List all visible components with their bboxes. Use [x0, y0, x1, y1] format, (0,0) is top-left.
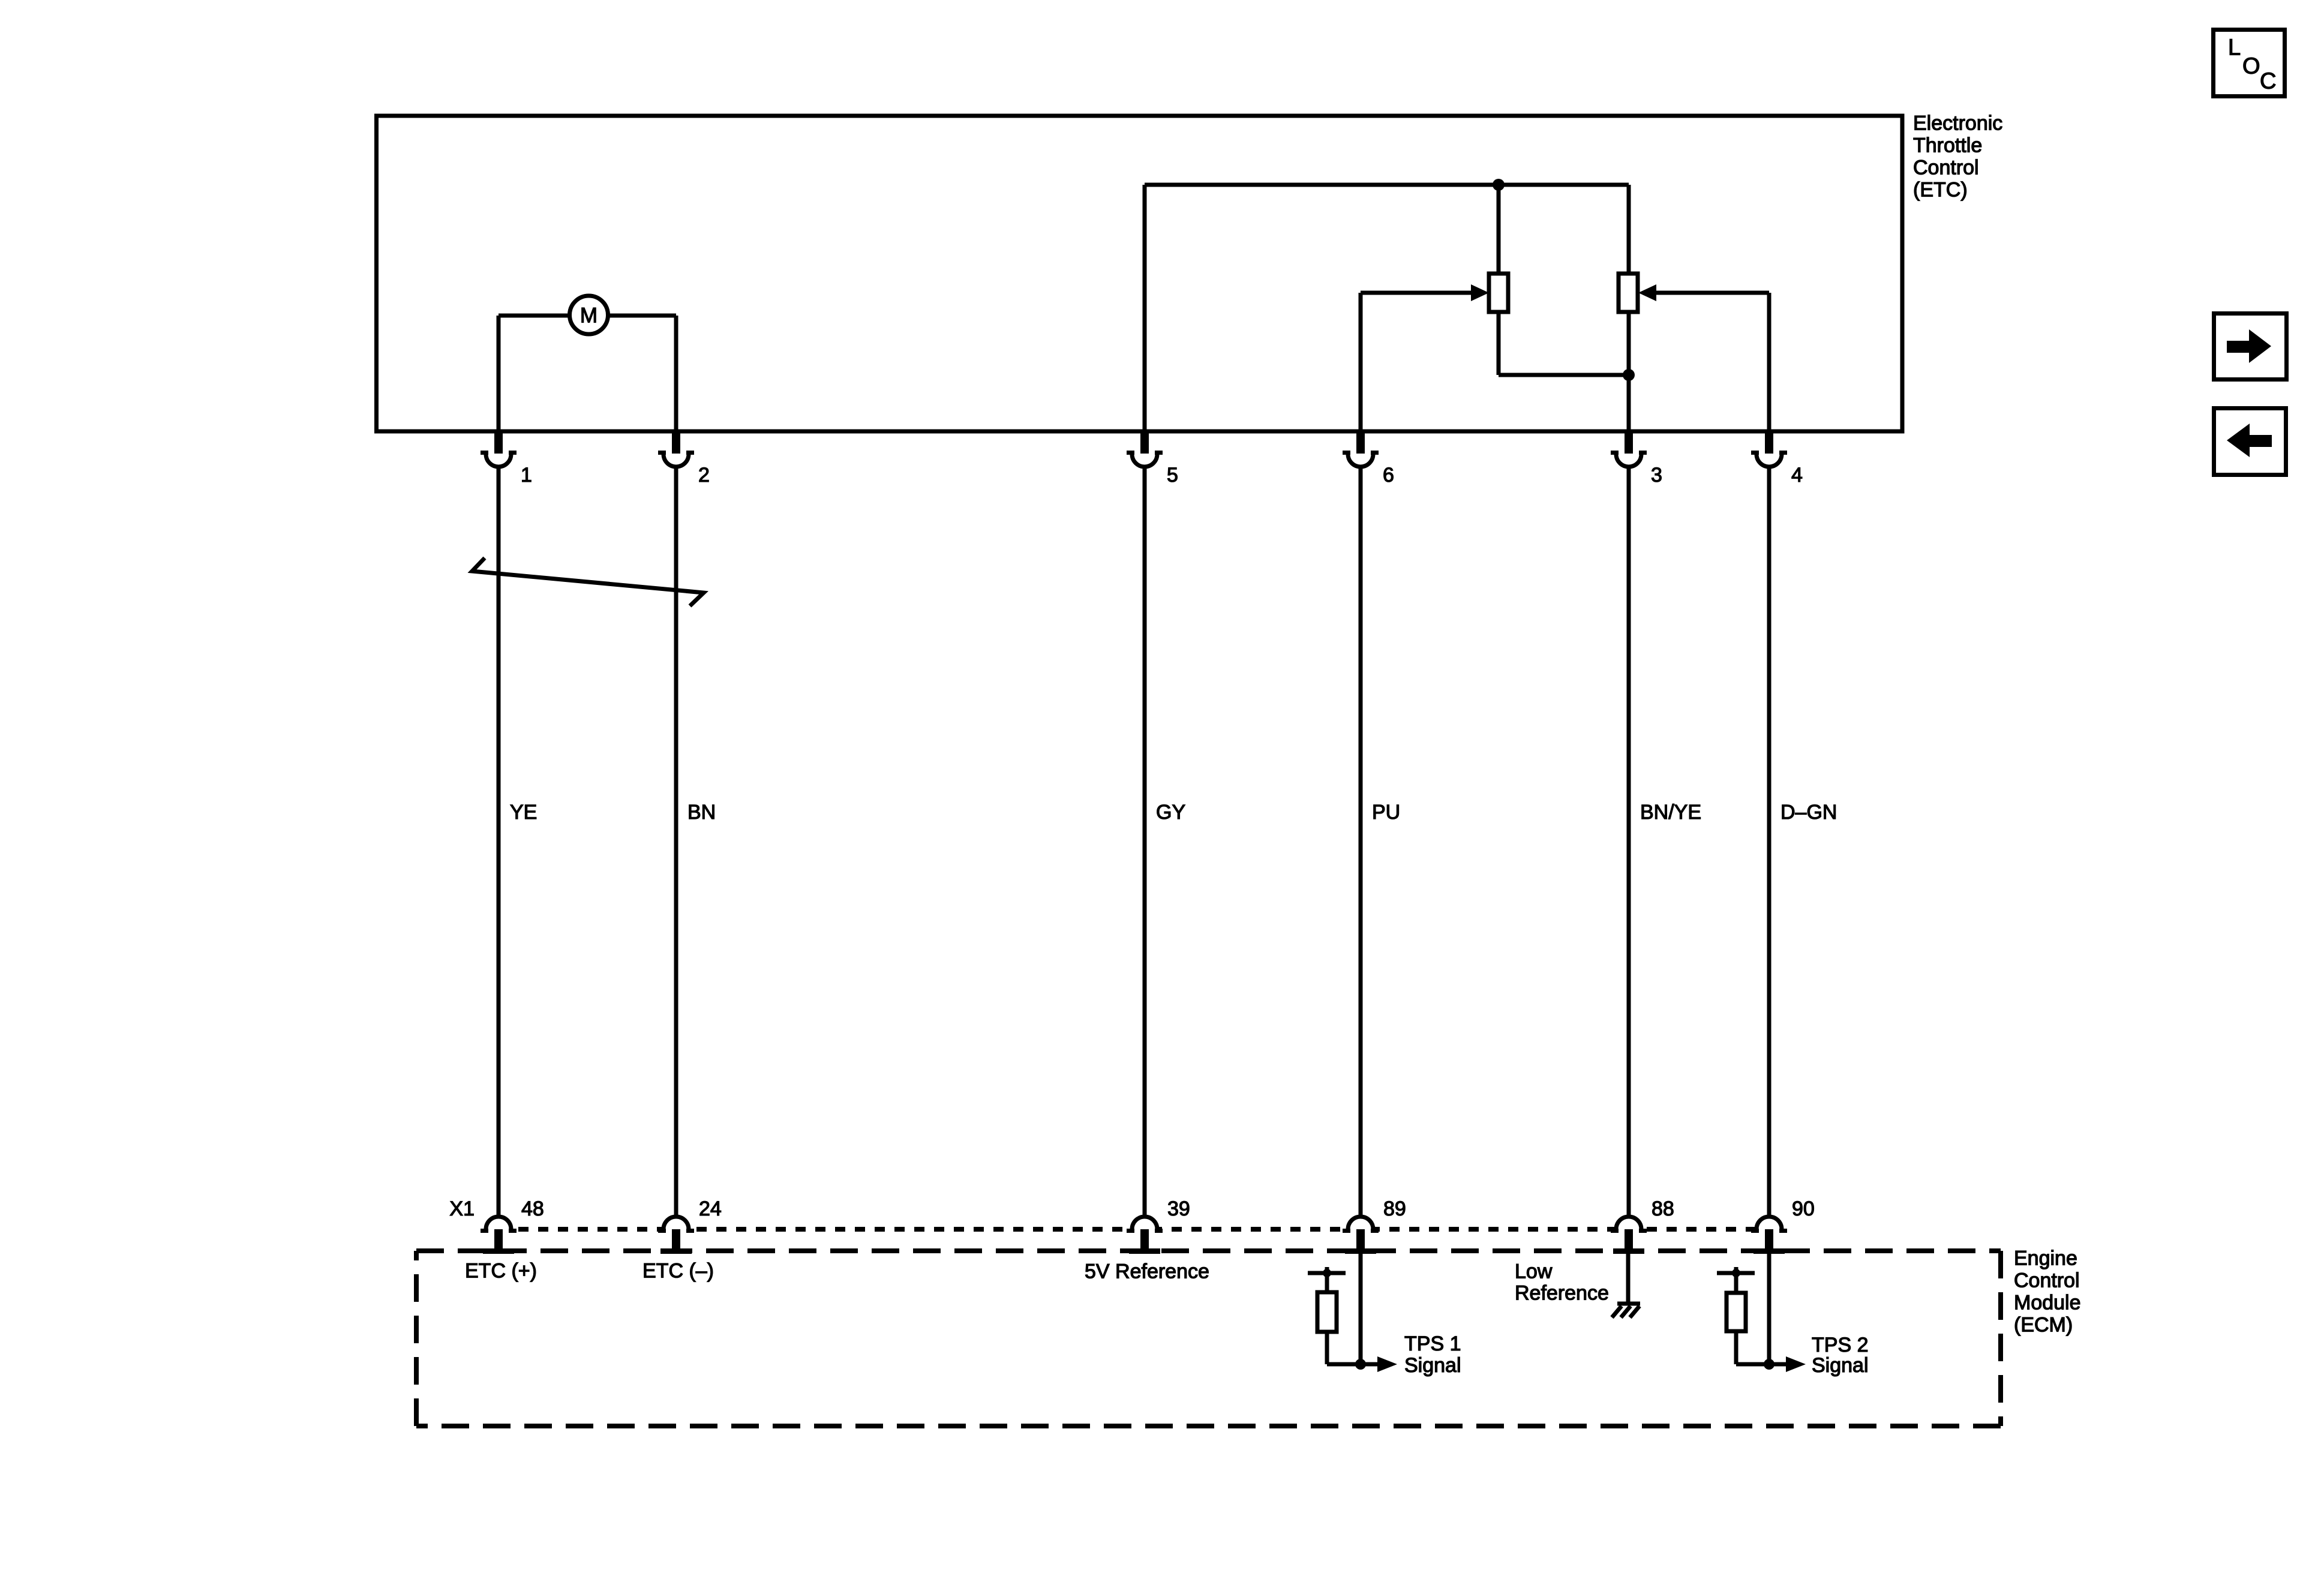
connector cavity ECM pin 24: [663, 1217, 689, 1229]
node R2 feed junction: [1732, 1269, 1740, 1277]
wire junction to R-TPS1 top: [1497, 185, 1501, 274]
connector cavity ETC pin 1: [494, 431, 503, 454]
arrow box backward: [2214, 409, 2286, 475]
svg-text:5V Reference: 5V Reference: [1085, 1260, 1209, 1283]
wire ECM pin 90 drop: [1767, 1251, 1771, 1364]
wire YE harness: [497, 465, 501, 1215]
svg-text:24: 24: [699, 1197, 722, 1220]
svg-text:Control: Control: [1913, 157, 1979, 179]
svg-text:(ETC): (ETC): [1913, 179, 1968, 202]
wire ECM pin 89 drop: [1359, 1251, 1363, 1364]
wire GY harness: [1143, 465, 1147, 1215]
wiper arrow TPS2: [1638, 284, 1656, 301]
box ETC (Electronic Throttle Control): [377, 116, 1903, 431]
svg-text:TPS 1: TPS 1: [1404, 1332, 1461, 1355]
connector cavity ECM pin 39: [1132, 1217, 1157, 1229]
connector cavity ETC pin 4: [1765, 431, 1773, 454]
wire R1 to signal node: [1325, 1332, 1329, 1364]
wiper arrow TPS1: [1471, 284, 1489, 301]
resistor TPS1 track: [1489, 274, 1508, 312]
connector X1 arc masks: [488, 1226, 509, 1233]
connector cavity ETC pin 6: [1356, 431, 1365, 454]
svg-text:48: 48: [521, 1197, 544, 1220]
svg-text:90: 90: [1792, 1197, 1815, 1220]
wire R-TPS2 bottom to pin 3: [1627, 312, 1631, 433]
wire top rail corner to R-TPS2 top: [1627, 185, 1631, 274]
svg-text:X1: X1: [449, 1197, 475, 1220]
wire BN/YE harness: [1627, 465, 1631, 1215]
wire pin 5 riser: [1143, 185, 1147, 433]
node TPS2 signal junction: [1764, 1359, 1774, 1370]
node bottom-rail junction: [1623, 369, 1635, 381]
svg-text:ETC (+): ETC (+): [465, 1260, 537, 1283]
svg-text:Engine: Engine: [2014, 1247, 2077, 1270]
svg-text:88: 88: [1652, 1197, 1674, 1220]
connector X1 dotted line: [499, 1227, 1769, 1232]
svg-text:C: C: [2260, 69, 2276, 94]
svg-text:Electronic: Electronic: [1913, 112, 2002, 135]
wire pin 6 riser (TPS1 wiper): [1359, 293, 1363, 433]
svg-text:GY: GY: [1156, 801, 1185, 824]
svg-text:TPS 2: TPS 2: [1812, 1334, 1868, 1356]
rail feed R1: [1308, 1271, 1346, 1275]
svg-text:ETC (–): ETC (–): [642, 1260, 714, 1283]
svg-text:L: L: [2228, 35, 2241, 61]
wire feed to R2: [1734, 1273, 1739, 1293]
svg-text:Reference: Reference: [1515, 1282, 1609, 1305]
svg-text:Signal: Signal: [1812, 1354, 1869, 1377]
svg-text:1: 1: [521, 464, 532, 487]
node top-rail junction: [1493, 179, 1505, 191]
wire ECM pin 88 drop: [1626, 1251, 1631, 1304]
wire bottom rail: [1499, 373, 1629, 377]
node TPS1 signal junction: [1355, 1359, 1366, 1370]
connector cavity ECM pin 90: [1756, 1217, 1782, 1229]
svg-text:BN: BN: [687, 801, 716, 824]
svg-text:89: 89: [1383, 1197, 1406, 1220]
LOC reference box: [2214, 30, 2285, 97]
svg-text:PU: PU: [1372, 801, 1400, 824]
TPS 1 signal arrow: [1361, 1362, 1379, 1367]
connector cavity ETC pin 5: [1140, 431, 1149, 454]
arrow backward: [2250, 435, 2272, 447]
arrow forward: [2227, 341, 2250, 353]
svg-text:(ECM): (ECM): [2014, 1314, 2073, 1337]
ground (Low Reference): [1617, 1302, 1640, 1306]
svg-text:M: M: [580, 304, 597, 328]
wire 5V top rail: [1145, 183, 1629, 187]
wire feed to R1: [1325, 1273, 1329, 1292]
connector cavity ETC pin 3: [1625, 431, 1633, 454]
connector cavity ECM pin 89: [1348, 1217, 1373, 1229]
connector cavity ECM pin 88: [1616, 1217, 1641, 1229]
twisted-leads mark: [472, 558, 704, 606]
resistor R1: [1317, 1292, 1337, 1332]
svg-text:Module: Module: [2014, 1292, 2081, 1314]
svg-text:39: 39: [1167, 1197, 1190, 1220]
wire PU harness: [1359, 465, 1363, 1215]
svg-text:O: O: [2242, 54, 2260, 79]
rail feed R2: [1717, 1271, 1755, 1275]
wire motor to pin 2 riser: [609, 314, 676, 318]
motor M: [570, 296, 608, 334]
svg-text:BN/YE: BN/YE: [1640, 801, 1701, 824]
resistor TPS2 track: [1619, 274, 1638, 312]
arrow box forward: [2214, 314, 2287, 380]
svg-text:5: 5: [1167, 464, 1178, 487]
wire pin 4 riser (TPS2 wiper): [1767, 293, 1771, 433]
node R1 feed junction: [1323, 1269, 1331, 1277]
svg-text:Control: Control: [2014, 1269, 2080, 1292]
svg-text:4: 4: [1791, 464, 1803, 487]
svg-text:2: 2: [698, 464, 710, 487]
svg-text:6: 6: [1383, 464, 1394, 487]
connector cavity ETC pin 2: [672, 431, 680, 454]
svg-text:Low: Low: [1515, 1260, 1553, 1283]
svg-text:D–GN: D–GN: [1780, 801, 1837, 824]
box ECM (dashed): [416, 1248, 2001, 1253]
wire R2 to signal node: [1734, 1331, 1739, 1364]
wire pin 1 riser to motor: [497, 316, 501, 433]
wire R-TPS1 bottom to bottom rail: [1497, 312, 1501, 375]
resistor R2: [1727, 1293, 1746, 1331]
connector cavity ECM pin 48: [486, 1217, 511, 1229]
svg-text:3: 3: [1651, 464, 1662, 487]
svg-text:Signal: Signal: [1404, 1354, 1461, 1377]
TPS 2 signal arrow: [1769, 1362, 1787, 1367]
svg-text:Throttle: Throttle: [1913, 134, 1982, 157]
svg-text:YE: YE: [510, 801, 537, 824]
wire BN harness: [674, 465, 678, 1215]
wire D–GN harness: [1767, 465, 1771, 1215]
